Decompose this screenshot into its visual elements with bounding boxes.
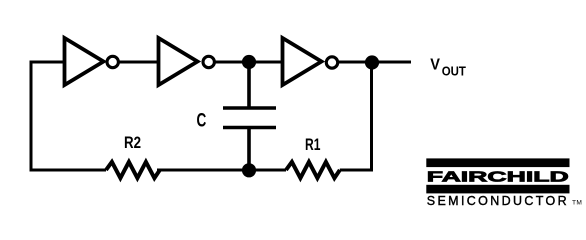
inverter U2 <box>159 38 198 85</box>
wire: bottom right segment <box>340 169 373 172</box>
wire: capacitor branch lower <box>247 128 251 171</box>
resistor R1 <box>286 162 340 178</box>
inverter U1 <box>65 38 104 85</box>
inverter U3 <box>283 38 322 85</box>
wire: input to inverter U1 <box>30 61 65 64</box>
svg-text:SEMICONDUCTOR: SEMICONDUCTOR <box>427 194 567 208</box>
svg-text:V: V <box>430 57 440 74</box>
Fairchild logo top bar <box>426 158 569 167</box>
wire: feedback left vertical <box>30 61 33 172</box>
inverter U1 bubble <box>107 56 118 67</box>
wire: U2 to U3 <box>216 61 283 64</box>
resistor R2 <box>106 162 160 178</box>
node: junction at capacitor bottom <box>242 163 256 177</box>
svg-text:R2: R2 <box>124 133 141 152</box>
wire: U3 output to Vout <box>339 61 411 64</box>
inverter U2 bubble <box>203 56 214 67</box>
wire: bottom middle segment <box>157 169 286 172</box>
wire: bottom left segment <box>30 169 107 172</box>
Fairchild logo bottom bar <box>426 185 569 194</box>
wire: capacitor branch upper <box>247 62 251 108</box>
svg-text:R1: R1 <box>305 135 320 154</box>
svg-text:C: C <box>197 110 207 131</box>
node: junction at capacitor top <box>242 55 256 69</box>
inverter U3 bubble <box>326 57 337 68</box>
svg-text:TM: TM <box>572 199 582 206</box>
svg-text:FAIRCHILD: FAIRCHILD <box>427 169 569 185</box>
svg-text:OUT: OUT <box>442 63 466 78</box>
node: output junction <box>365 55 379 69</box>
capacitor C top plate <box>223 106 276 110</box>
wire: U1 to U2 <box>120 61 159 64</box>
capacitor C bottom plate <box>223 126 276 130</box>
wire: right vertical from output <box>370 62 373 172</box>
